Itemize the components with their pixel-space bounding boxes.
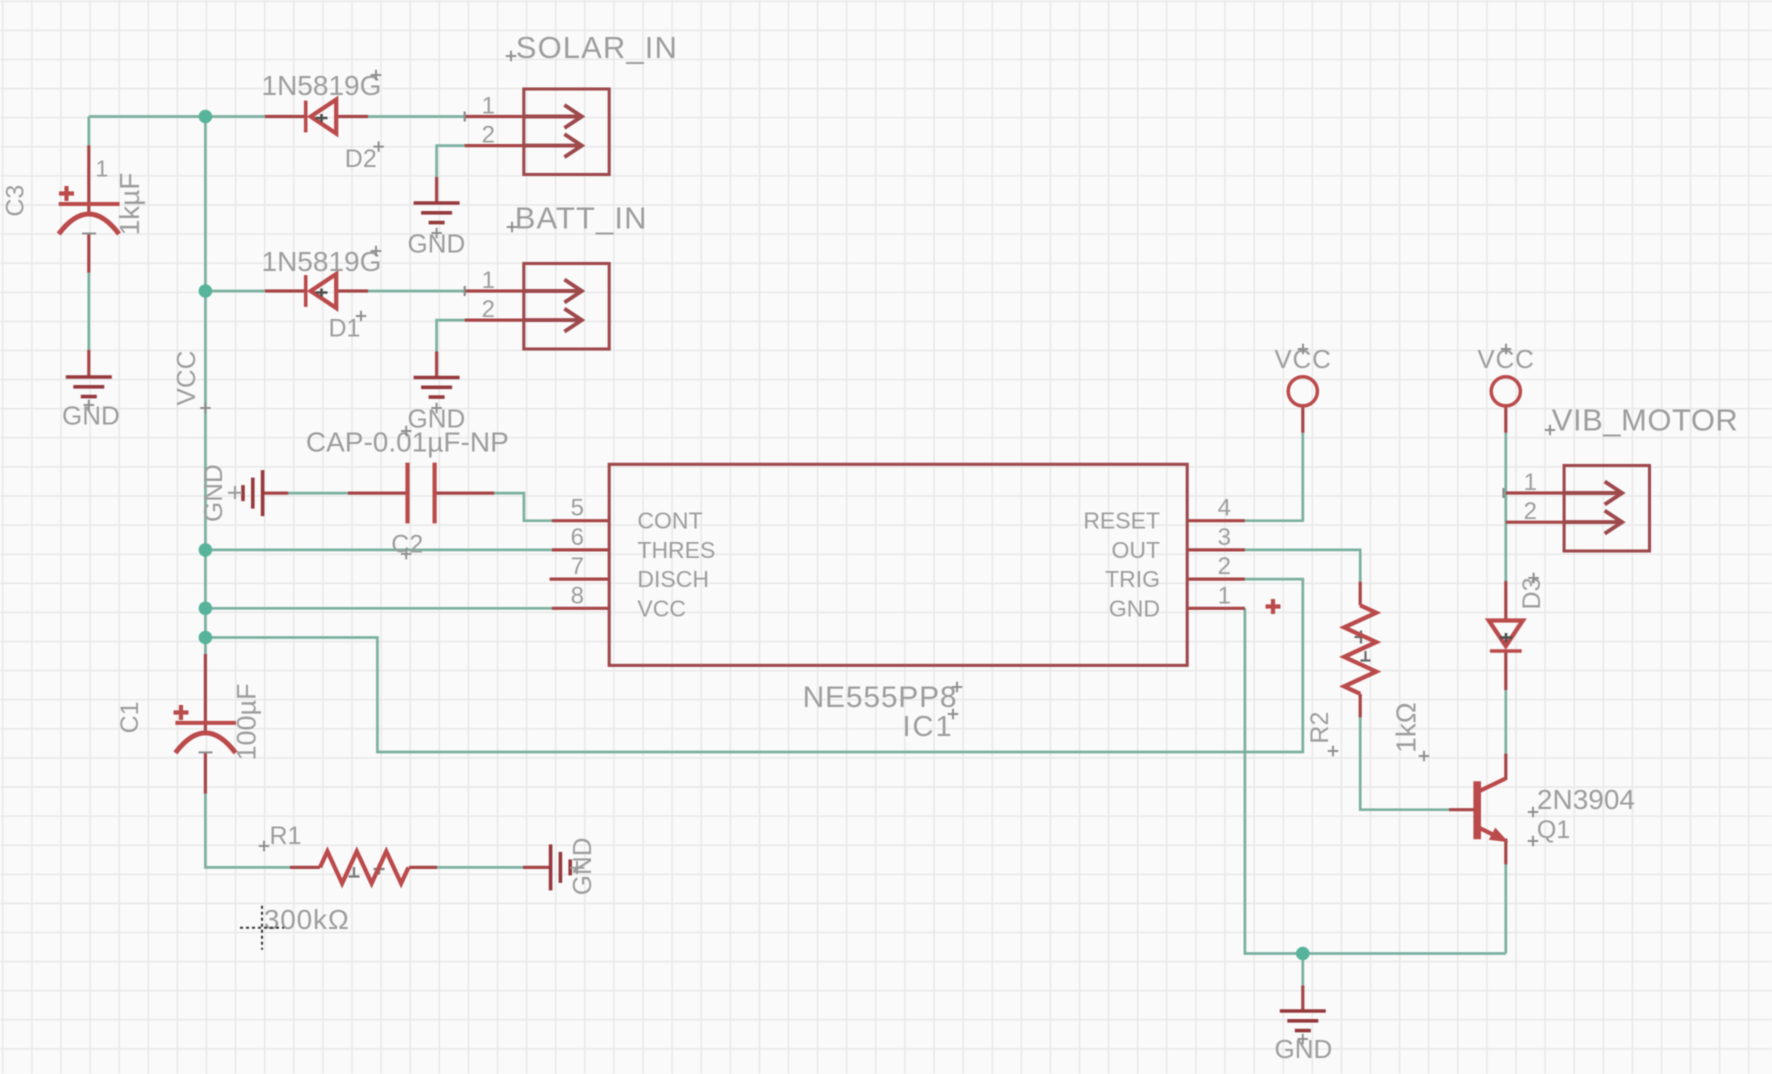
marker GND R1	[570, 861, 584, 874]
svg-text:NE555PP8: NE555PP8	[803, 681, 958, 714]
svg-text:6: 6	[571, 524, 584, 551]
svg-text:TRIG: TRIG	[1105, 566, 1160, 592]
diode D3 cathode lead	[1504, 651, 1507, 690]
wire C1 negative to R1 left	[205, 794, 290, 868]
svg-text:SOLAR_IN: SOLAR_IN	[516, 30, 678, 65]
connector BATT_IN	[524, 264, 609, 350]
marker 1N5819G D1	[371, 246, 381, 256]
svg-text:100µF: 100µF	[232, 683, 262, 760]
transistor Q1 collector lead	[1504, 754, 1507, 780]
wire R2 bottom to Q1 base	[1360, 717, 1449, 809]
svg-text:THRES: THRES	[637, 537, 715, 563]
ground stub bottom	[1301, 986, 1304, 1012]
transistor Q1 base lead	[1449, 808, 1475, 811]
connector VIB_MOTOR	[1564, 466, 1649, 552]
capacitor C3 origin tick	[82, 233, 96, 235]
ground bottom	[1280, 1011, 1326, 1031]
wire VCC to VIB_MOTOR pin 1 and D3 anode	[1504, 433, 1507, 581]
svg-text:VCC: VCC	[171, 351, 201, 406]
pin stub IC pin 1	[1187, 607, 1245, 610]
power VCC symbol right	[1491, 377, 1520, 406]
wire C2 right to IC pin 5	[494, 493, 552, 521]
svg-text:GND: GND	[1109, 595, 1160, 621]
capacitor C1	[174, 705, 237, 753]
marker GND C2	[228, 486, 242, 499]
capacitor C2 right lead	[435, 492, 495, 495]
marker R1	[259, 841, 269, 851]
capacitor C1 top lead	[204, 654, 207, 731]
capacitor C3 bottom lead	[87, 234, 90, 273]
svg-text:GND: GND	[567, 837, 597, 895]
svg-text:300kΩ: 300kΩ	[264, 904, 350, 935]
node junction rail D1	[199, 284, 213, 298]
svg-text:D3: D3	[1518, 578, 1546, 610]
svg-text:BATT_IN: BATT_IN	[515, 201, 648, 236]
svg-text:R2: R2	[1306, 712, 1334, 744]
pin stub IC pin 2	[1187, 577, 1245, 580]
svg-text:2N3904: 2N3904	[1537, 784, 1635, 815]
VCC stub left	[1301, 404, 1304, 433]
pin tick SOLAR_IN 1	[464, 112, 466, 122]
node junction rail VCC pin	[199, 602, 213, 616]
svg-text:1: 1	[482, 267, 495, 294]
node junction bottom ground	[1296, 947, 1310, 961]
marker D1	[356, 311, 366, 321]
ground left of C2	[243, 470, 263, 516]
wire D1 cathode to BATT_IN pin 1	[368, 290, 465, 293]
node junction rail TRIG branch	[199, 631, 213, 645]
resistor R2	[1344, 605, 1376, 694]
diode D2 anode lead	[265, 115, 306, 118]
svg-text:8: 8	[571, 582, 584, 609]
svg-text:Q1: Q1	[1537, 816, 1570, 844]
marker GND bottom	[1298, 1034, 1308, 1044]
resistor R2 bottom lead	[1359, 694, 1362, 718]
wire IC pin 4 RESET to VCC	[1245, 433, 1303, 521]
resistor R1 right lead	[409, 866, 437, 869]
pin tick BATT_IN 1	[464, 286, 466, 296]
marker 1k R2	[1419, 751, 1429, 761]
capacitor C2	[408, 463, 435, 524]
marker D3	[1528, 573, 1538, 583]
capacitor C1 bottom lead	[204, 753, 207, 794]
wire SOLAR_IN pin 2 to ground	[437, 146, 465, 177]
resistor R2 top lead	[1359, 582, 1362, 606]
svg-text:VIB_MOTOR: VIB_MOTOR	[1552, 403, 1739, 438]
svg-text:1: 1	[96, 155, 109, 181]
svg-text:1kµF: 1kµF	[114, 173, 145, 236]
wire VCC rail vertical	[204, 117, 207, 655]
pin stub BATT_IN 1	[465, 289, 524, 292]
svg-text:R1: R1	[270, 822, 302, 850]
VCC stub right	[1504, 404, 1507, 433]
marker 2N3904	[1528, 807, 1538, 817]
svg-text:D1: D1	[329, 315, 361, 343]
wire rail to IC pin 6 THRES	[205, 549, 551, 552]
svg-text:4: 4	[1218, 495, 1231, 522]
ground below BATT_IN pin 2	[414, 378, 460, 398]
svg-text:5: 5	[571, 495, 584, 522]
cursor crosshair	[240, 906, 284, 950]
marker IC1	[948, 709, 958, 719]
wire rail to IC pin 8 VCC	[205, 607, 551, 610]
net flag marker near IC pin 1	[1266, 599, 1281, 614]
diode D2 cathode lead	[336, 115, 368, 118]
op-amp IC1 body NE555	[609, 464, 1187, 665]
svg-text:1: 1	[482, 93, 495, 120]
marker D2	[373, 141, 383, 151]
pin stub IC pin 3	[1187, 548, 1245, 551]
ground stub below C3	[87, 350, 90, 377]
svg-text:2: 2	[1218, 553, 1231, 580]
wire D2 cathode to SOLAR_IN pin 1	[368, 115, 465, 118]
svg-text:RESET: RESET	[1083, 508, 1160, 534]
marker R2	[1328, 746, 1338, 756]
ground below SOLAR_IN pin 2	[414, 203, 460, 223]
pin stub IC pin 4	[1187, 519, 1245, 522]
svg-text:DISCH: DISCH	[637, 566, 709, 592]
wire to C3 positive	[87, 117, 90, 146]
marker C2	[401, 549, 411, 559]
resistor R1 left lead	[290, 866, 320, 869]
ground stub below BATT_IN	[435, 352, 438, 378]
marker BATT_IN	[507, 222, 517, 232]
wire BATT_IN pin 2 to ground	[437, 320, 465, 351]
node junction rail THRES	[199, 543, 213, 557]
marker VCC right	[1501, 344, 1511, 354]
wire C3 top to VCC rail	[89, 115, 206, 118]
pin stub SOLAR_IN 1	[465, 115, 524, 118]
svg-text:1N5819G: 1N5819G	[262, 246, 382, 277]
diode D2 origin marker	[316, 114, 328, 122]
wire IC pin 1 GND to bottom rail	[1245, 608, 1506, 953]
pin stub VIB_MOTOR 1	[1506, 491, 1564, 494]
capacitor C2 left lead	[348, 492, 408, 495]
svg-text:D2: D2	[345, 145, 377, 173]
diode D3 origin marker	[1500, 633, 1512, 642]
svg-text:IC1: IC1	[902, 711, 953, 743]
marker CAP value	[401, 426, 411, 436]
svg-text:GND: GND	[198, 464, 228, 522]
capacitor C1 origin tick	[199, 751, 213, 753]
diode D1 cathode lead	[336, 289, 368, 292]
marker Q1	[1528, 836, 1538, 846]
wire IC pin 3 OUT to R2 top	[1245, 550, 1360, 582]
marker GND SOLAR	[431, 228, 441, 238]
svg-text:1: 1	[1524, 469, 1537, 496]
svg-text:1kΩ: 1kΩ	[1391, 702, 1422, 753]
marker SOLAR_IN	[506, 51, 516, 61]
ground stub left of C2	[263, 492, 289, 495]
svg-text:VCC: VCC	[637, 595, 686, 621]
svg-text:C3: C3	[2, 185, 30, 217]
svg-text:7: 7	[571, 553, 584, 580]
ground stub right of R1	[523, 866, 551, 869]
marker VCC left	[1298, 344, 1308, 354]
ground right of R1	[551, 844, 571, 890]
wire D3 cathode to Q1 collector	[1504, 690, 1507, 754]
pin stub IC pin 8	[552, 607, 609, 610]
pin tick VIB_MOTOR 1	[1503, 488, 1505, 498]
pin stub IC pin 7	[550, 577, 610, 580]
transistor Q1	[1477, 779, 1508, 843]
svg-text:1N5819G: 1N5819G	[262, 70, 382, 101]
wire rail to IC pin 2 TRIG	[205, 579, 1302, 752]
marker GND BATT	[431, 403, 441, 413]
svg-text:CONT: CONT	[637, 508, 702, 534]
pin stub SOLAR_IN 2	[465, 144, 524, 147]
wire ground to C2 left	[288, 492, 348, 495]
svg-text:2: 2	[1524, 498, 1537, 525]
ground stub below SOLAR_IN	[435, 177, 438, 203]
wire R1 right to ground	[437, 866, 523, 869]
wire rail to D2 anode	[205, 115, 265, 118]
svg-text:2: 2	[482, 296, 495, 323]
power VCC symbol left	[1288, 377, 1317, 406]
svg-text:3: 3	[1218, 524, 1231, 551]
svg-text:2: 2	[482, 122, 495, 149]
marker VIB_MOTOR	[1545, 425, 1555, 435]
pin stub BATT_IN 2	[465, 319, 524, 322]
marker GND C3	[84, 400, 94, 410]
wire Q1 emitter to bottom rail	[1504, 864, 1507, 953]
diode D2	[306, 100, 337, 134]
diode D1 anode lead	[265, 289, 306, 292]
resistor R2 origin marker	[1355, 631, 1371, 662]
marker NE555PP8	[952, 682, 962, 692]
pin stub IC pin 5	[552, 519, 609, 522]
connector SOLAR_IN	[524, 89, 609, 175]
transistor Q1 emitter lead	[1504, 839, 1507, 865]
capacitor C3	[59, 186, 120, 234]
diode D1 origin marker	[316, 289, 328, 297]
capacitor C3 top lead	[87, 145, 90, 212]
diode D3 anode lead	[1504, 581, 1507, 622]
marker 1N5819G D2	[371, 70, 381, 80]
pin stub IC pin 6	[552, 548, 609, 551]
resistor R1 origin marker	[349, 864, 385, 878]
diode D1	[306, 274, 337, 308]
ground below C3	[66, 377, 112, 397]
svg-text:C1: C1	[116, 701, 144, 733]
node junction rail top	[199, 110, 213, 124]
wire C3 negative to ground	[87, 273, 90, 350]
resistor R1	[320, 851, 409, 883]
wire junction to ground stub	[1301, 954, 1304, 986]
marker VCC rail	[200, 403, 210, 413]
svg-text:1: 1	[1218, 582, 1231, 609]
svg-text:OUT: OUT	[1111, 537, 1160, 563]
wire rail to D1 anode	[205, 290, 265, 293]
pin stub VIB_MOTOR 2	[1506, 521, 1564, 524]
diode D3	[1489, 621, 1523, 652]
